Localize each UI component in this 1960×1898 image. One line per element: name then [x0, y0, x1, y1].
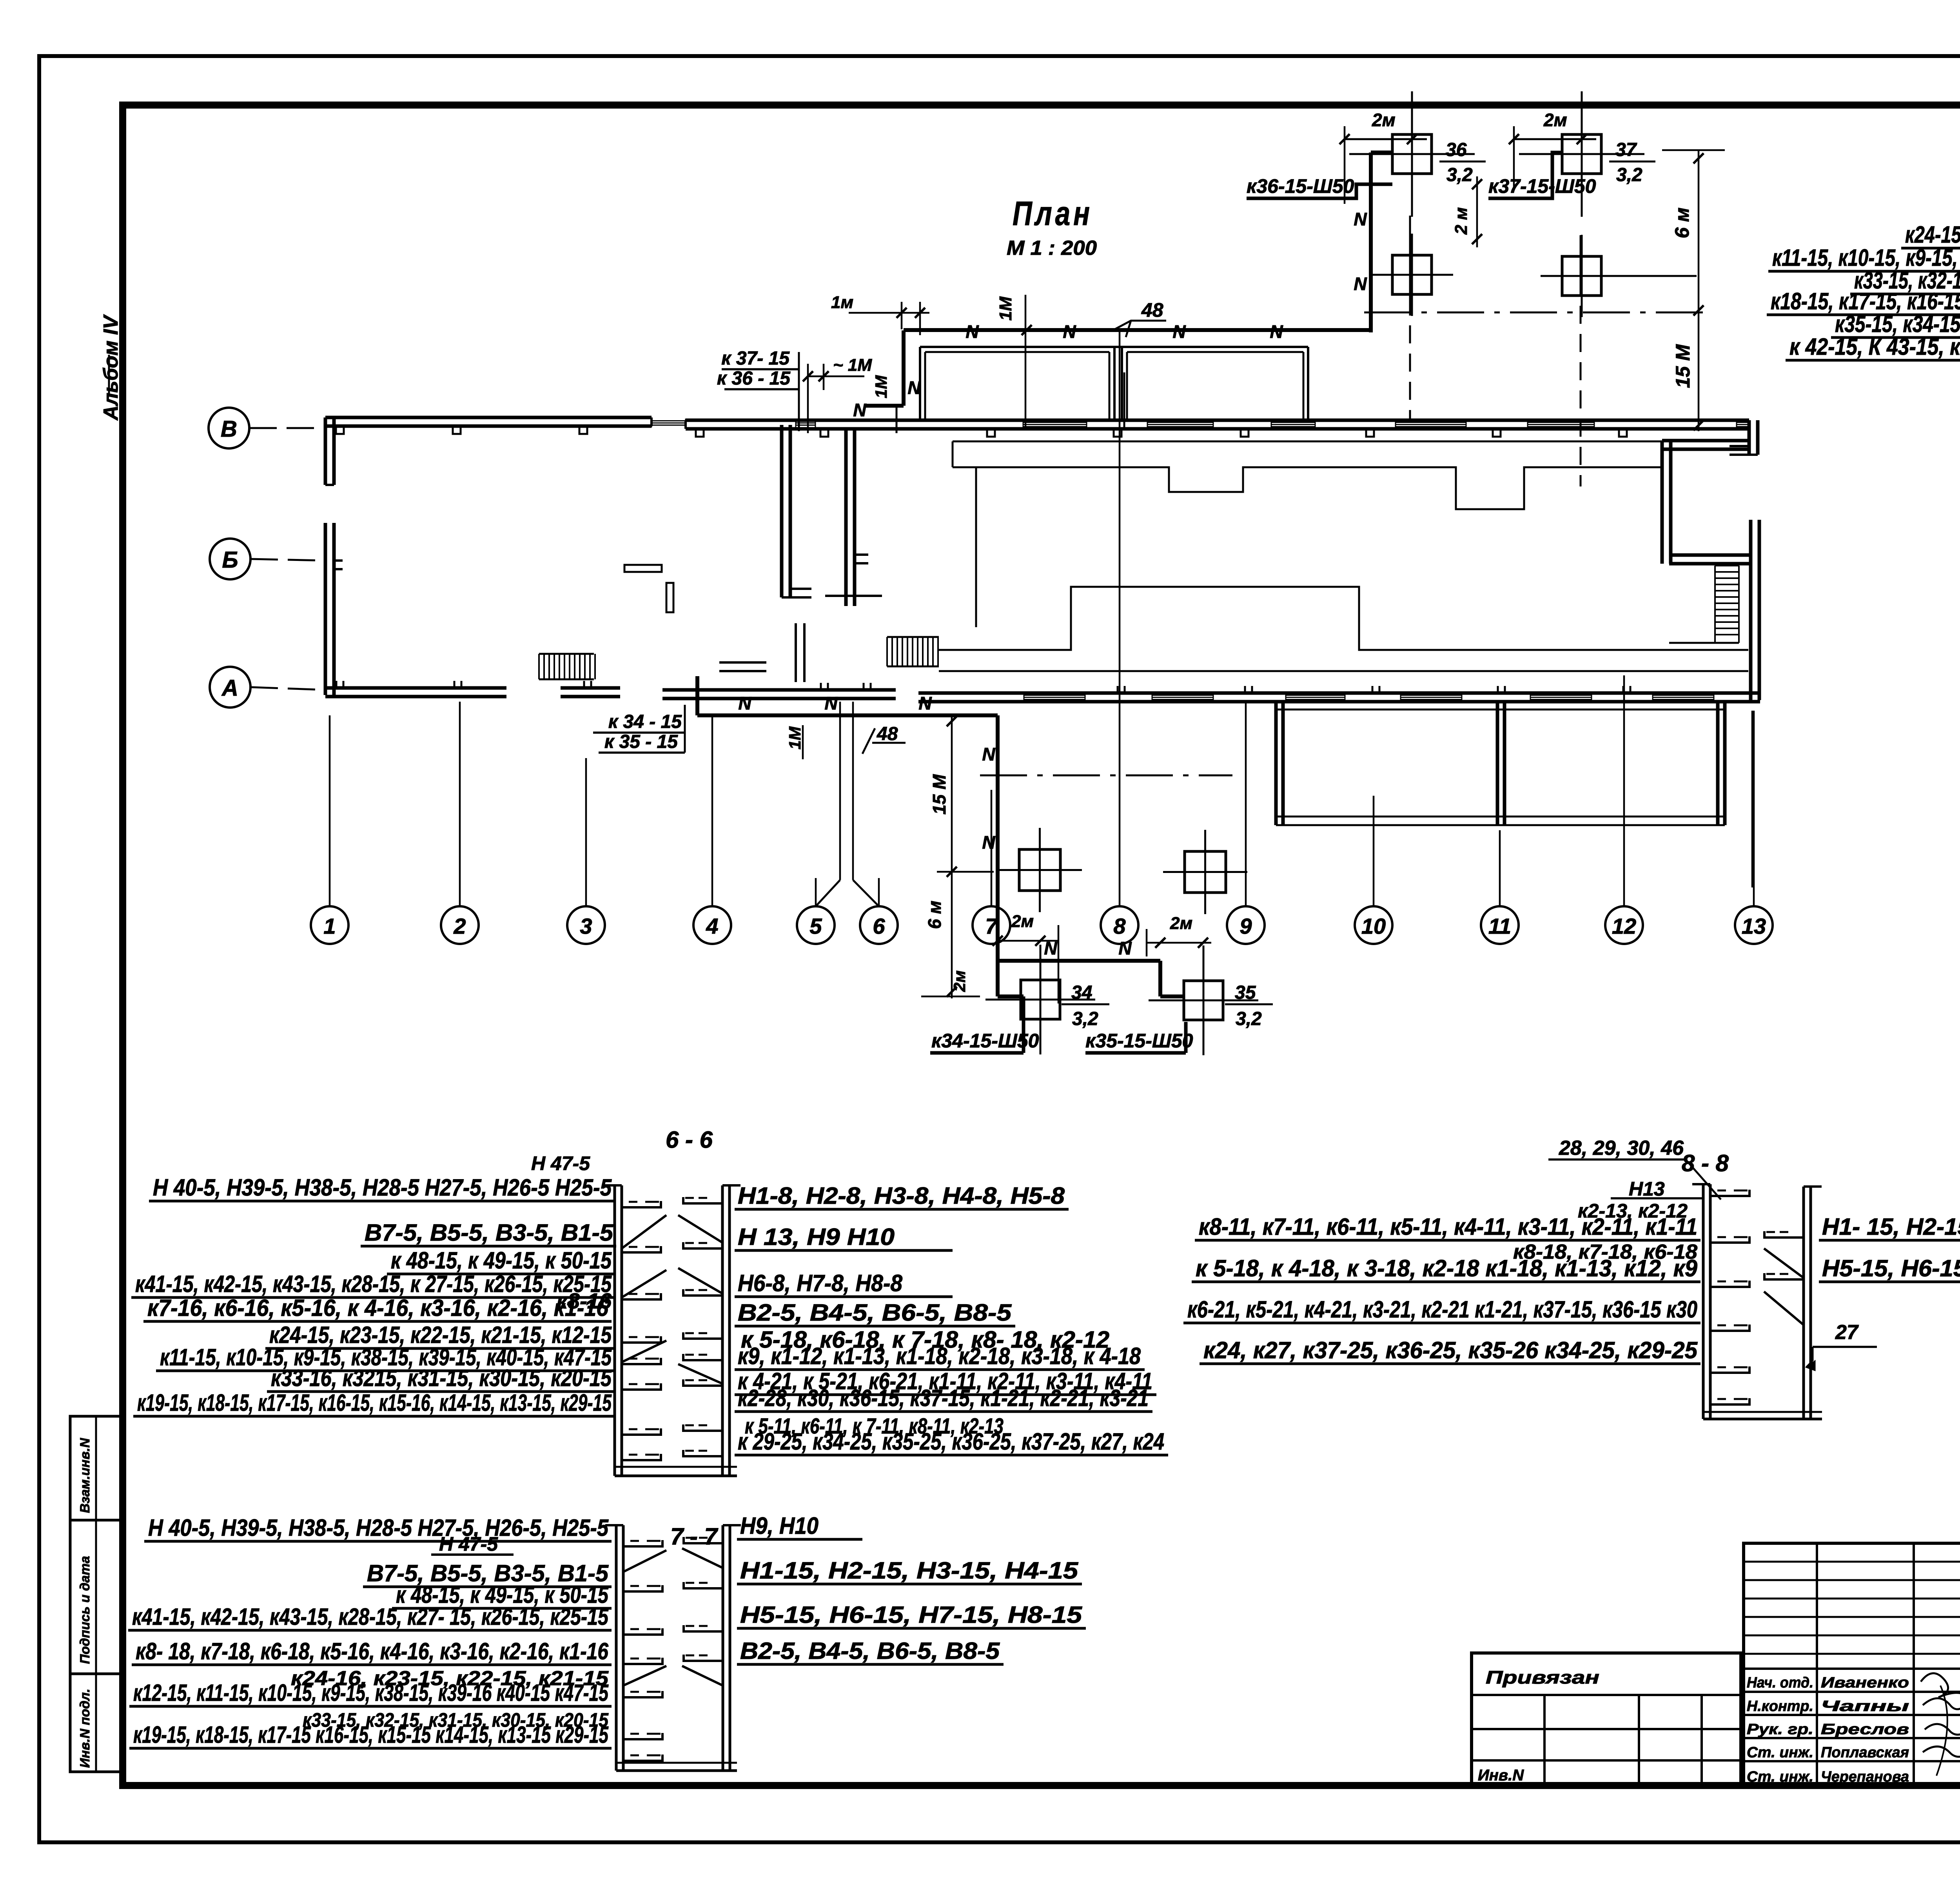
- svg-text:15 М: 15 М: [1672, 344, 1694, 388]
- svg-text:N: N: [1172, 321, 1186, 342]
- svg-text:1М: 1М: [872, 375, 890, 398]
- svg-text:Н5-15, Н6-15, Н7-15, Н8-15: Н5-15, Н6-15, Н7-15, Н8-15: [740, 1602, 1083, 1628]
- fixture 34: [1021, 980, 1060, 1019]
- svg-text:N: N: [1063, 321, 1076, 342]
- title block small table: [1472, 1653, 1741, 1785]
- svg-text:1М: 1М: [786, 726, 804, 749]
- svg-text:Н5-15, Н6-15, Н7-15, Н8-15: Н5-15, Н6-15, Н7-15, Н8-15: [1822, 1255, 1960, 1281]
- svg-text:к 48-15, к 49-15, к 50-15: к 48-15, к 49-15, к 50-15: [391, 1247, 612, 1274]
- svg-text:N: N: [1118, 938, 1132, 958]
- svg-text:27: 27: [1835, 1321, 1859, 1344]
- svg-text:N: N: [824, 693, 838, 713]
- route k36: [1247, 184, 1392, 198]
- svg-text:Н1-15, Н2-15, Н3-15, Н4-15: Н1-15, Н2-15, Н3-15, Н4-15: [740, 1557, 1079, 1584]
- svg-text:к34-15-Ш50: к34-15-Ш50: [931, 1030, 1039, 1052]
- left stamp boxes: [70, 1416, 122, 1772]
- top route horizontal: [904, 328, 1371, 332]
- svg-text:N: N: [965, 321, 979, 342]
- gallery boxes above row V: [920, 346, 1308, 348]
- wall row B left: [324, 523, 327, 695]
- svg-text:к6-21, к5-21, к4-21, к3-21, к2: к6-21, к5-21, к4-21, к3-21, к2-21 к1-21,…: [1187, 1296, 1697, 1323]
- svg-text:Н6-8, Н7-8, Н8-8: Н6-8, Н7-8, Н8-8: [738, 1270, 903, 1296]
- svg-text:к8-11, к7-11, к6-11, к5-11, к4: к8-11, к7-11, к6-11, к5-11, к4-11, к3-11…: [1199, 1214, 1697, 1240]
- grid circle 2: [441, 906, 479, 944]
- drop dashes col: [1409, 216, 1411, 316]
- svg-text:48: 48: [877, 724, 898, 744]
- section 6-6 channel: [613, 1185, 616, 1476]
- fixture below 37: [1562, 256, 1601, 296]
- grid circle B: [210, 539, 250, 579]
- svg-text:N: N: [918, 693, 932, 713]
- route lower horizontal: [697, 713, 998, 717]
- svg-text:Черепанова: Черепанова: [1821, 1769, 1909, 1785]
- svg-text:В: В: [221, 416, 237, 442]
- route k34 drop: [1022, 1021, 1025, 1053]
- svg-text:13: 13: [1742, 914, 1766, 938]
- svg-text:9: 9: [1240, 914, 1252, 938]
- svg-text:к 37- 15: к 37- 15: [721, 348, 790, 369]
- centerline dashdot mid: [980, 775, 1232, 777]
- svg-text:48: 48: [1141, 299, 1163, 321]
- svg-text:2м: 2м: [1170, 914, 1192, 933]
- svg-text:Нач. отд.: Нач. отд.: [1747, 1675, 1813, 1691]
- svg-text:34: 34: [1071, 982, 1092, 1003]
- stairs mid: [886, 637, 888, 666]
- title block signature table: [1744, 1543, 1960, 1785]
- grid circle 3: [567, 906, 605, 944]
- svg-text:к7-16, к6-16, к5-16, к 4-16,: к7-16, к6-16, к5-16, к 4-16, к3-16, к2-1…: [147, 1295, 609, 1321]
- svg-text:к8- 18, к7-18, к6-18, к5-16,: к8- 18, к7-18, к6-18, к5-16, к4-16, к3-1…: [136, 1638, 609, 1664]
- route k35 drop: [1184, 1022, 1188, 1053]
- wall hatch at cable entry: [796, 420, 815, 421]
- upper trench: [953, 441, 1662, 443]
- svg-text:10: 10: [1361, 914, 1386, 938]
- svg-text:к 5-18, к 4-18, к 3-18, к2-1: к 5-18, к 4-18, к 3-18, к2-18 к1-18, к1-…: [1196, 1255, 1698, 1281]
- svg-text:37: 37: [1615, 140, 1637, 160]
- wall row A segments: [325, 686, 506, 690]
- svg-text:2 м: 2 м: [1452, 207, 1471, 235]
- svg-text:к41-15, к42-15, к43-15, к28-15: к41-15, к42-15, к43-15, к28-15, к 27-15,…: [135, 1271, 612, 1297]
- svg-text:к24, к27, к37-25, к36-25, к3: к24, к27, к37-25, к36-25, к35-26 к34-25,…: [1203, 1337, 1698, 1363]
- svg-text:N: N: [1354, 209, 1367, 229]
- grid circle A: [210, 667, 250, 708]
- svg-text:Поплавская: Поплавская: [1821, 1744, 1909, 1761]
- grid circle 7: [973, 906, 1010, 944]
- svg-text:7 - 7: 7 - 7: [670, 1523, 719, 1550]
- svg-text:к36-15-Ш50: к36-15-Ш50: [1247, 175, 1354, 197]
- svg-text:Инв.N: Инв.N: [1478, 1767, 1524, 1784]
- grid circle 10: [1355, 906, 1392, 944]
- svg-text:6: 6: [873, 914, 885, 938]
- fixture 35: [1184, 981, 1223, 1020]
- svg-text:Н13: Н13: [1629, 1178, 1665, 1200]
- svg-text:N: N: [907, 377, 921, 398]
- svg-text:35: 35: [1235, 982, 1256, 1003]
- grid circle 4: [693, 906, 731, 944]
- svg-text:~ 1М: ~ 1М: [833, 356, 872, 375]
- grid 5-6 leader extensions: [816, 880, 840, 906]
- svg-text:Ст. инж.: Ст. инж.: [1747, 1769, 1813, 1785]
- svg-text:к33-16, к3215, к31-15, к30-15,: к33-16, к3215, к31-15, к30-15, к20-15: [271, 1365, 612, 1391]
- svg-text:2м: 2м: [1543, 110, 1567, 130]
- grid circle 11: [1481, 906, 1519, 944]
- upper right room: [1662, 439, 1749, 443]
- svg-text:28, 29, 30, 46: 28, 29, 30, 46: [1559, 1137, 1684, 1159]
- pump squares mid: [1019, 849, 1060, 891]
- svg-text:к 36 - 15: к 36 - 15: [717, 368, 791, 389]
- svg-text:Альбом IV: Альбом IV: [100, 314, 122, 421]
- svg-text:к 29-25, к34-25, к35-25, к36-2: к 29-25, к34-25, к35-25, к36-25, к37-25,…: [738, 1428, 1164, 1455]
- svg-text:к35-15, к34-15, к48-15, к49: к35-15, к34-15, к48-15, к49-15, к50-15, …: [1835, 311, 1960, 337]
- svg-text:2м: 2м: [950, 971, 969, 992]
- svg-text:Н 40-5, Н39-5, Н38-5, Н28-5: Н 40-5, Н39-5, Н38-5, Н28-5 Н27-5, Н26-5…: [153, 1174, 612, 1201]
- svg-text:4: 4: [706, 914, 718, 938]
- svg-text:к37-15-Ш50: к37-15-Ш50: [1488, 175, 1596, 197]
- svg-text:36: 36: [1446, 140, 1467, 160]
- wall row V top: [325, 416, 652, 419]
- svg-text:к12-15, к11-15, к10-15, к9-15,: к12-15, к11-15, к10-15, к9-15, к38-15, к…: [133, 1680, 609, 1706]
- svg-text:11: 11: [1488, 914, 1511, 938]
- signatures: [1921, 1673, 1960, 1699]
- svg-text:Взам.инв.N: Взам.инв.N: [78, 1437, 93, 1513]
- svg-text:Привязан: Привязан: [1486, 1667, 1599, 1688]
- svg-text:5: 5: [809, 914, 822, 938]
- svg-text:В2-5, В4-5, В6-5, В8-5: В2-5, В4-5, В6-5, В8-5: [738, 1299, 1012, 1326]
- svg-text:3,2: 3,2: [1446, 165, 1473, 185]
- section 7-7 channel: [615, 1525, 618, 1771]
- svg-text:План: План: [1013, 195, 1093, 232]
- route k37: [1488, 152, 1562, 198]
- svg-text:Рук. гр.: Рук. гр.: [1747, 1721, 1813, 1738]
- svg-text:6 - 6: 6 - 6: [666, 1127, 713, 1153]
- route down to squares: [996, 715, 1000, 961]
- svg-text:12: 12: [1612, 914, 1636, 938]
- svg-text:к11-15, к10-15, к9-15, к38-: к11-15, к10-15, к9-15, к38-15, к39-15, к…: [1772, 245, 1960, 271]
- svg-text:Б: Б: [222, 547, 238, 573]
- svg-text:Ст. инж.: Ст. инж.: [1747, 1744, 1813, 1761]
- svg-text:В7-5, В5-5, В3-5, В1-5: В7-5, В5-5, В3-5, В1-5: [365, 1219, 614, 1246]
- svg-text:М 1 : 200: М 1 : 200: [1007, 237, 1097, 259]
- grid circle 5: [797, 906, 835, 944]
- svg-text:Инв.N подл.: Инв.N подл.: [78, 1689, 93, 1768]
- svg-text:А: А: [221, 675, 238, 701]
- svg-text:Н1-8, Н2-8, Н3-8, Н4-8, Н5: Н1-8, Н2-8, Н3-8, Н4-8, Н5-8: [738, 1183, 1065, 1209]
- interior partition 2: [844, 429, 848, 606]
- svg-text:к19-15, к18-15, к17-15, к16-15: к19-15, к18-15, к17-15, к16-15, к15-16, …: [137, 1390, 612, 1416]
- svg-text:N: N: [982, 832, 995, 853]
- svg-text:Бреслов: Бреслов: [1821, 1721, 1909, 1738]
- grid circle 13: [1735, 906, 1773, 944]
- svg-text:Н1- 15, Н2-15, Н3-15, Н4- 15: Н1- 15, Н2-15, Н3-15, Н4- 15: [1822, 1214, 1960, 1240]
- svg-text:2м: 2м: [1011, 912, 1034, 931]
- svg-text:1: 1: [323, 914, 336, 938]
- svg-text:к9, к1-12, к1-13, к1-18, к2-18: к9, к1-12, к1-13, к1-18, к2-18, к3-18, к…: [738, 1343, 1141, 1369]
- svg-text:Н 40-5, Н39-5, Н38-5, Н28-5: Н 40-5, Н39-5, Н38-5, Н28-5 Н27-5, Н26-5…: [148, 1515, 609, 1541]
- svg-text:Н9, Н10: Н9, Н10: [740, 1513, 818, 1539]
- svg-text:Н.контр.: Н.контр.: [1747, 1698, 1813, 1715]
- svg-text:3,2: 3,2: [1072, 1009, 1098, 1029]
- col8 extra cable: [1123, 372, 1125, 427]
- centerline dashdot top: [1364, 312, 1704, 314]
- svg-text:6 м: 6 м: [924, 901, 945, 929]
- grid circle V: [209, 408, 249, 448]
- svg-text:В2-5, В4-5, В6-5, В8-5: В2-5, В4-5, В6-5, В8-5: [740, 1638, 1000, 1664]
- lower trench: [939, 587, 1748, 650]
- svg-text:3,2: 3,2: [1616, 165, 1642, 185]
- fixture 37: [1562, 134, 1601, 174]
- grid circle 1: [311, 906, 348, 944]
- svg-text:Н 13, Н9 Н10: Н 13, Н9 Н10: [738, 1224, 895, 1250]
- svg-text:1М: 1М: [996, 296, 1015, 321]
- grid circle 8: [1101, 906, 1138, 944]
- svg-text:к 34 - 15: к 34 - 15: [608, 711, 682, 732]
- svg-text:к2-28, к30, к36-15, к37-15, к1: к2-28, к30, к36-15, к37-15, к1-21, к2-21…: [738, 1385, 1149, 1411]
- interior small walls: [624, 565, 662, 572]
- fixture below 36: [1392, 255, 1432, 294]
- svg-text:Чапны: Чапны: [1821, 1698, 1909, 1715]
- interior partition 1: [780, 425, 784, 597]
- svg-text:8: 8: [1113, 914, 1126, 938]
- svg-text:Иваненко: Иваненко: [1821, 1675, 1909, 1691]
- svg-text:3: 3: [580, 914, 592, 938]
- svg-text:к 42-15, К 43-15, к28-15, к: к 42-15, К 43-15, к28-15, к27-15, к26-15…: [1789, 334, 1960, 360]
- svg-text:к18-15, к17-15, к16-15, к15: к18-15, к17-15, к16-15, к15-15 к14-15, к…: [1771, 288, 1960, 314]
- right stairs: [1715, 565, 1739, 566]
- svg-text:N: N: [738, 693, 751, 713]
- svg-text:Подпись и дата: Подпись и дата: [78, 1556, 93, 1664]
- wall row V right corner: [1748, 420, 1751, 455]
- mid vertical: [975, 467, 977, 627]
- svg-text:к24-15, к23-15, к22-15, к21: к24-15, к23-15, к22-15, к21-15, к 12-15: [1905, 221, 1960, 248]
- svg-text:к19-15, к18-15, к17-15 к16-15: к19-15, к18-15, к17-15 к16-15, к15-15 к1…: [133, 1722, 609, 1748]
- line to circle 13: [1751, 711, 1753, 887]
- svg-text:Н 47-5: Н 47-5: [531, 1152, 590, 1174]
- svg-text:3,2: 3,2: [1236, 1009, 1262, 1029]
- svg-text:к35-15-Ш50: к35-15-Ш50: [1085, 1030, 1193, 1052]
- svg-text:15 М: 15 М: [929, 774, 949, 815]
- svg-text:к41-15, к42-15, к43-15, к28-: к41-15, к42-15, к43-15, к28-15, к27- 15,…: [132, 1604, 609, 1630]
- route drop to wall: [864, 404, 904, 408]
- svg-text:N: N: [982, 744, 995, 764]
- grid circle 6: [860, 906, 898, 944]
- svg-text:2м: 2м: [1372, 110, 1396, 130]
- lower room block: [1274, 702, 1278, 825]
- svg-text:N: N: [1354, 274, 1367, 294]
- stairs left: [538, 654, 540, 679]
- svg-text:1м: 1м: [831, 293, 853, 312]
- svg-text:N: N: [1270, 321, 1283, 342]
- wall row V main: [686, 419, 1749, 422]
- svg-text:к 35 - 15: к 35 - 15: [604, 731, 678, 752]
- grid circle 9: [1227, 906, 1265, 944]
- section 8-8 channel: [1702, 1184, 1705, 1419]
- svg-text:2: 2: [453, 914, 466, 938]
- svg-text:6 м: 6 м: [1671, 207, 1693, 238]
- svg-text:N: N: [853, 400, 866, 420]
- fixture 36: [1392, 134, 1432, 174]
- grid circle 12: [1605, 906, 1643, 944]
